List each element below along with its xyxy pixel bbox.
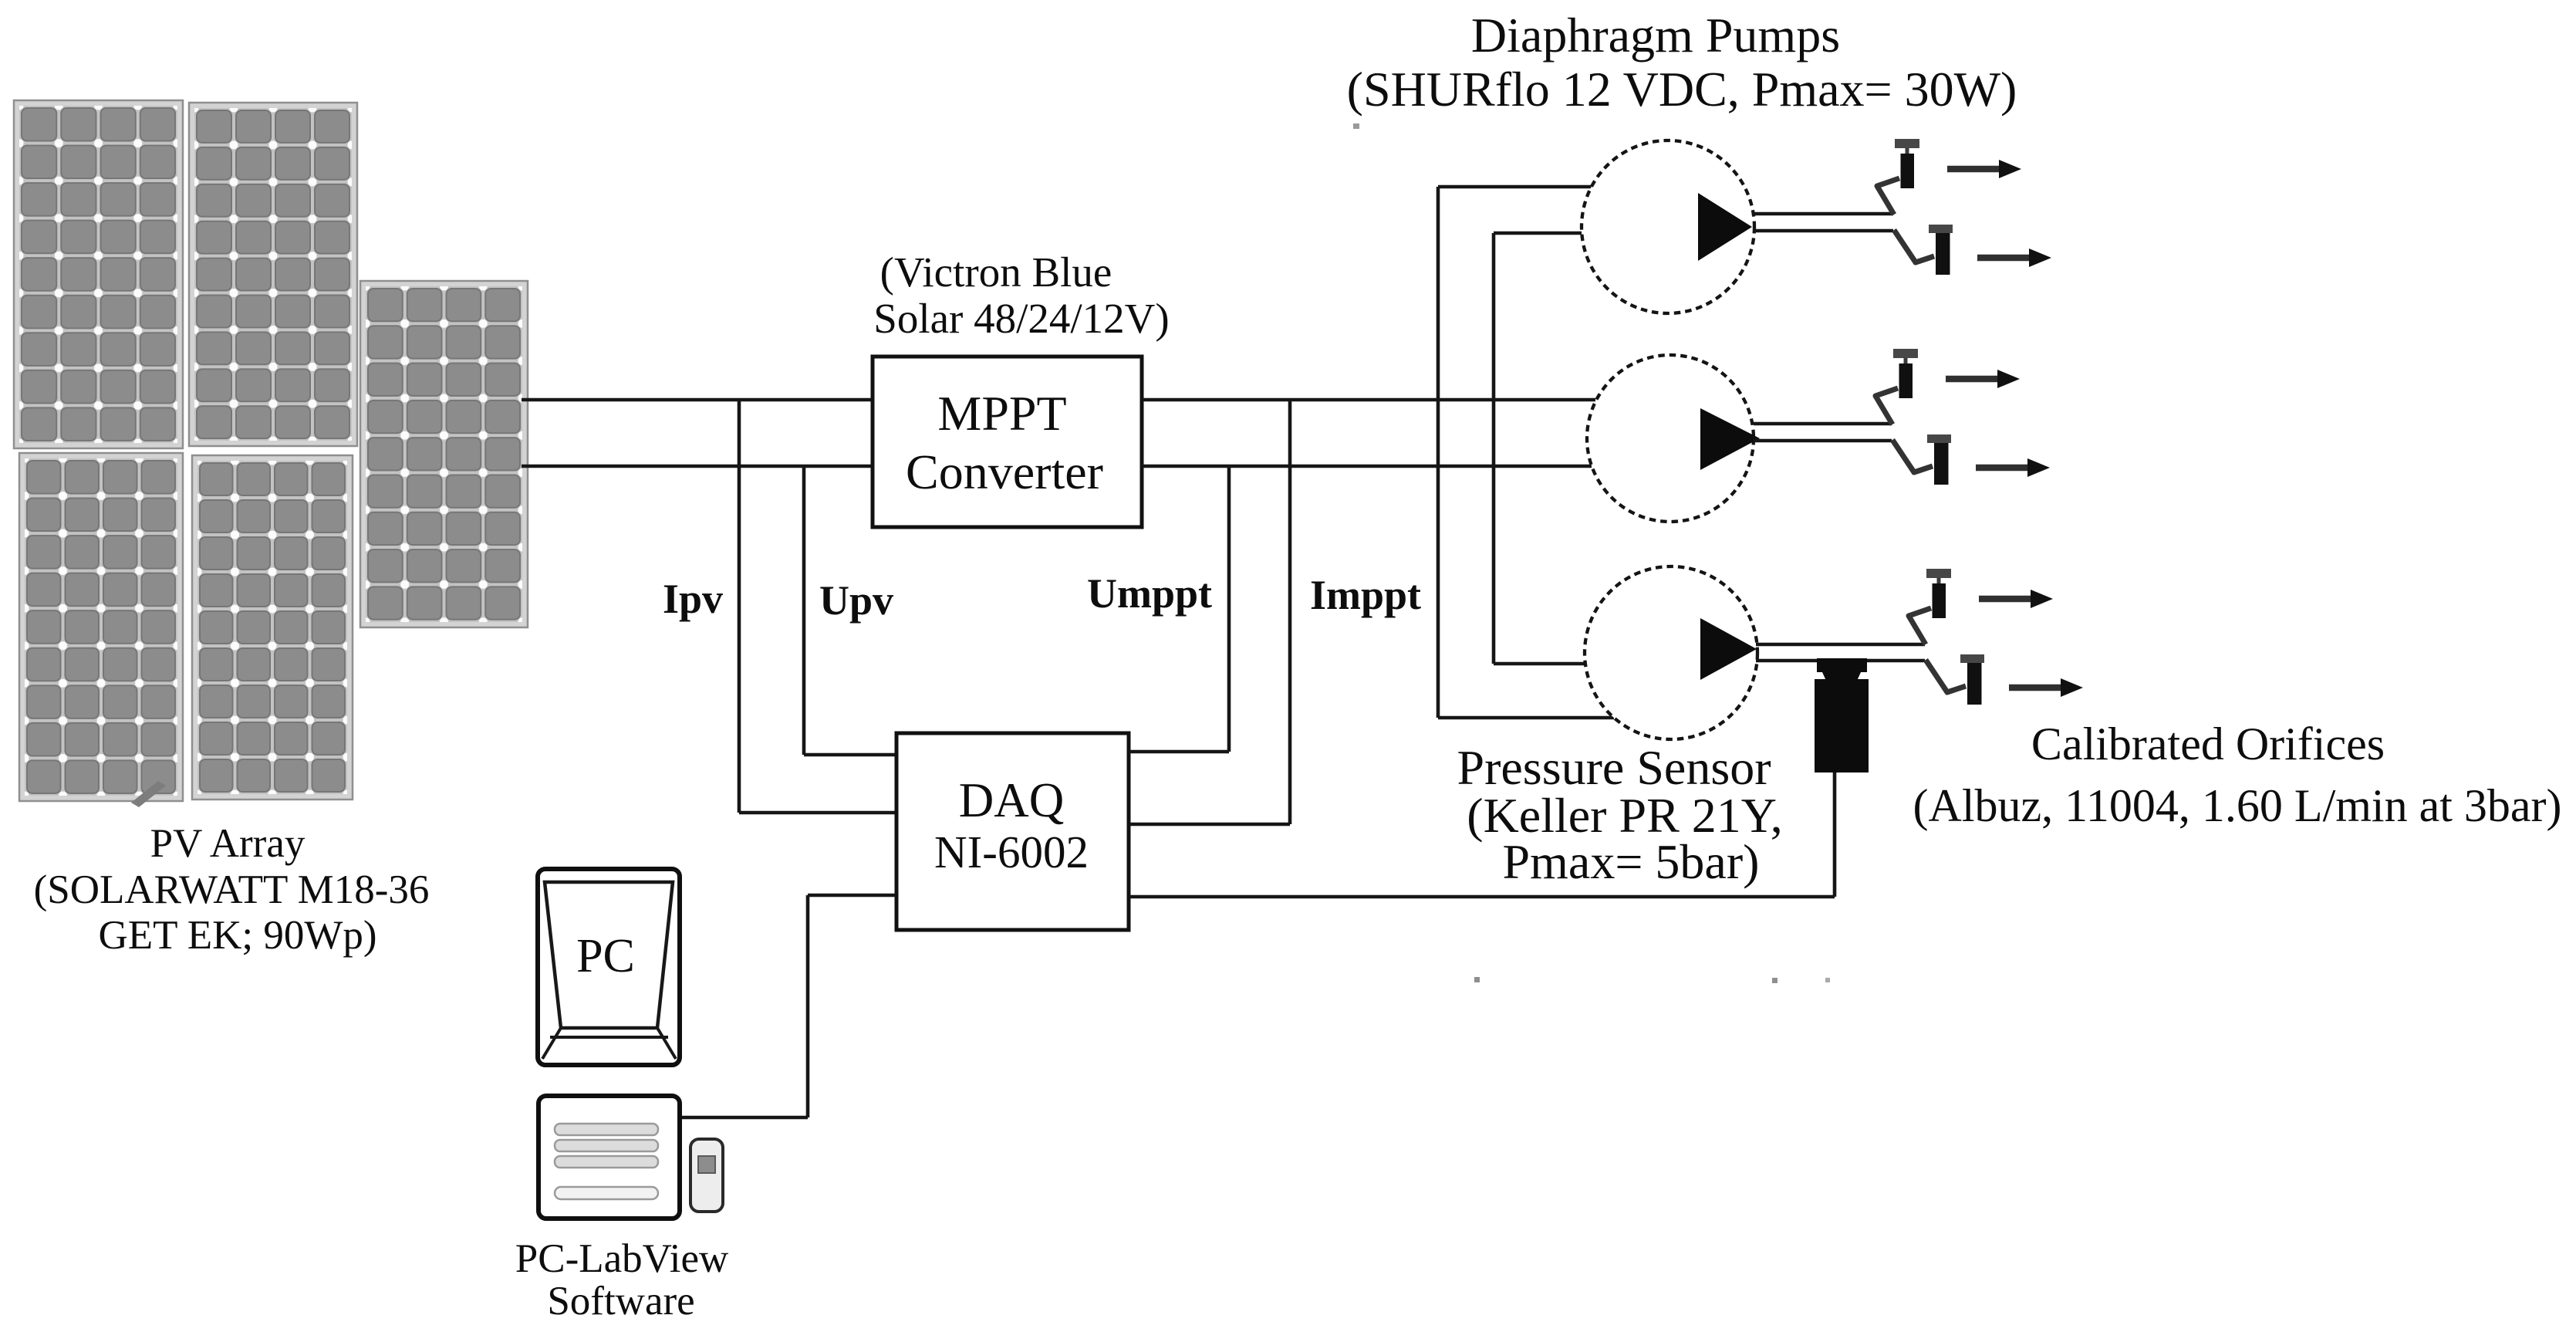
wire DAQ to PC-LabView [680, 895, 896, 1117]
MPPT caption [873, 248, 1169, 342]
manifold rail 2 vertical [1492, 233, 1496, 664]
PV panel 2 (top-right) [189, 103, 357, 446]
wire Ipv horizontal into DAQ [739, 811, 896, 815]
wire Upv horizontal into DAQ [804, 753, 896, 757]
PC monitor icon [538, 869, 680, 1065]
svg-text:Solar 48/24/12V): Solar 48/24/12V) [873, 295, 1169, 342]
svg-text:DAQ: DAQ [959, 773, 1065, 827]
PC-LabView software icon [538, 1096, 680, 1219]
wire rail1 to pump 3 lower inlet [1438, 716, 1614, 720]
svg-text:(SOLARWATT M18-36: (SOLARWATT M18-36 [34, 867, 430, 912]
svg-text:(SHURflo 12 VDC, Pmax= 30W): (SHURflo 12 VDC, Pmax= 30W) [1347, 62, 2017, 117]
svg-text:Converter: Converter [906, 445, 1103, 499]
mouse icon [690, 1139, 723, 1212]
wire Imppt: DAQ right to vertical [1129, 823, 1290, 827]
small gray mark under panel 3 [131, 781, 166, 807]
svg-text:Calibrated Orifices: Calibrated Orifices [2031, 718, 2385, 769]
PV panel 4 (bottom-right) [192, 455, 353, 800]
wire Upv vertical [802, 466, 806, 755]
wire Umppt vertical [1227, 466, 1231, 752]
wire MPPT+ to pump rail (top) [1142, 398, 1595, 402]
stray dots [1474, 977, 1480, 982]
small dot under caption [1353, 123, 1359, 129]
diaphragm pump 1 [1582, 140, 1893, 313]
wire Ipv vertical [738, 400, 741, 813]
PV panel 3 (bottom-left) [19, 453, 183, 801]
orifices caption [1913, 718, 2562, 831]
svg-text:(Albuz, 11004, 1.60 L/min at 3: (Albuz, 11004, 1.60 L/min at 3bar) [1913, 780, 2562, 831]
svg-text:GET EK; 90Wp): GET EK; 90Wp) [98, 913, 376, 958]
svg-text:Pmax= 5bar): Pmax= 5bar) [1503, 834, 1760, 889]
calibrated orifice set 2 [1875, 349, 2050, 485]
svg-text:(Victron Blue: (Victron Blue [880, 248, 1112, 296]
svg-text:PC: PC [576, 930, 635, 982]
PV panel 5 (small, right) [360, 281, 528, 627]
svg-text:PC-LabView: PC-LabView [515, 1236, 729, 1281]
wire PV- to MPPT (bottom) [522, 465, 873, 468]
svg-text:PV Array: PV Array [150, 821, 306, 866]
svg-text:Pressure Sensor: Pressure Sensor [1457, 740, 1771, 795]
PV array caption [34, 821, 430, 958]
wire rail2 to pump 3 upper inlet [1494, 662, 1586, 666]
calibrated orifice set 1 [1877, 139, 2051, 275]
pressure sensor caption [1457, 740, 1782, 889]
wire rail1 to pump 1 upper inlet [1438, 185, 1592, 189]
manifold rail 1 vertical [1437, 187, 1440, 718]
svg-text:Upv: Upv [819, 577, 893, 624]
wire PV+ to MPPT (top) [522, 398, 873, 402]
svg-text:Ipv: Ipv [663, 576, 723, 622]
pressure sensor [1815, 658, 1869, 772]
pumps caption [1347, 8, 2017, 117]
diaphragm pump 3 [1585, 566, 1925, 739]
PV panel 1 (top-left) [14, 100, 183, 448]
wire pressure sensor to DAQ [1833, 772, 1837, 897]
svg-text:NI-6002: NI-6002 [934, 827, 1089, 877]
PC-LabView caption [515, 1236, 729, 1324]
svg-text:Imppt: Imppt [1310, 572, 1421, 618]
diaphragm pump 2 [1587, 355, 1892, 522]
DAQ box [896, 733, 1129, 930]
svg-text:Software: Software [547, 1279, 694, 1324]
svg-text:MPPT: MPPT [937, 386, 1066, 441]
wire rail2 to pump 1 lower inlet [1494, 232, 1582, 235]
svg-text:Umppt: Umppt [1087, 570, 1212, 617]
MPPT converter box [873, 357, 1142, 527]
calibrated orifice set 3 [1909, 569, 2083, 705]
wire MPPT- to pump 2 (bottom) [1142, 465, 1592, 468]
wire Umppt: DAQ right to vertical [1129, 750, 1229, 754]
wire Imppt vertical [1288, 400, 1292, 824]
svg-text:Diaphragm Pumps: Diaphragm Pumps [1471, 8, 1840, 63]
